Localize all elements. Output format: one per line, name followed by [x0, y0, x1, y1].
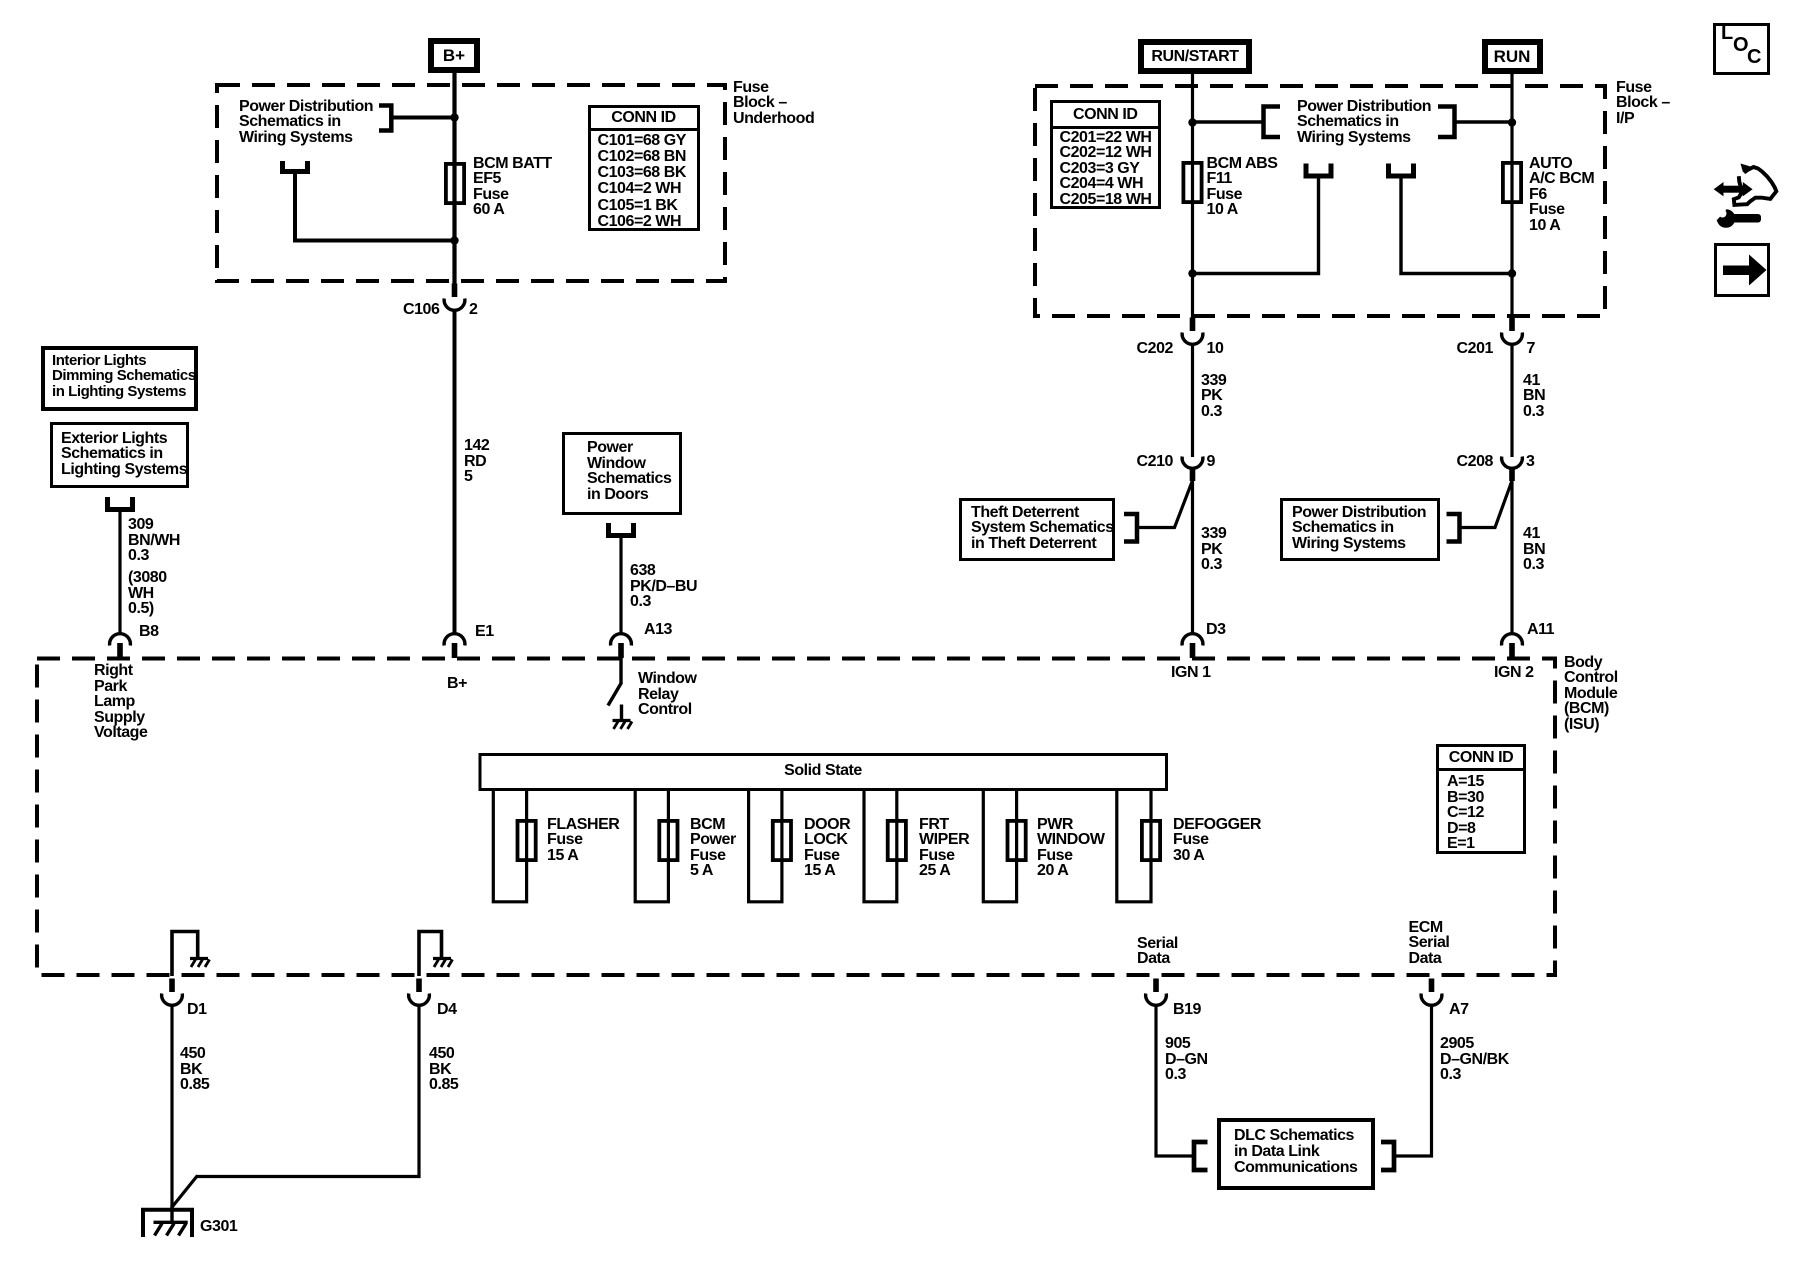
connector bracket power distribution schematics lower (underhood): [283, 161, 308, 172]
label power distribution schematics I/P: [1297, 99, 1431, 146]
connector D1: [162, 979, 183, 1006]
wire solid state leg FLASHER 15A: [493, 791, 526, 902]
connector A13: [611, 634, 632, 658]
wire solid state leg DOOR LOCK 15A: [749, 791, 782, 902]
connector E1: [444, 634, 465, 658]
wire label 450 BK left: [180, 1046, 209, 1093]
label right park lamp supply voltage: [94, 663, 147, 741]
label solid state: [480, 763, 1166, 779]
reference box power window: [562, 432, 682, 515]
label fuse BCM BATT: [473, 156, 552, 218]
wire label 905 D-GN: [1165, 1036, 1208, 1083]
connector A7: [1421, 979, 1442, 1006]
pin label C202: [1133, 341, 1173, 357]
pin label D4: [437, 1002, 457, 1018]
wire 41 BN upper: [1510, 343, 1513, 457]
label fuse BCM ABS F11: [1207, 156, 1278, 218]
wire label 339 PK upper: [1201, 373, 1226, 420]
icon letter L: [1721, 26, 1733, 42]
wire 638 PK/D-BU: [619, 534, 622, 635]
label IGN 2: [1494, 665, 1534, 681]
pin label C201: [1453, 341, 1493, 357]
wire RUN/START feed: [1191, 72, 1194, 318]
icon forward arrow: [1723, 255, 1767, 286]
wire label 339 PK lower: [1201, 526, 1226, 573]
pin label C208: [1453, 454, 1493, 470]
connector bracket power window: [609, 523, 634, 536]
reference box DLC: [1217, 1118, 1375, 1190]
callout bracket power distribution schematics I/P right: [1438, 107, 1455, 138]
callout bracket power distribution schematics (underhood): [379, 106, 391, 131]
fuse DOOR LOCK 15A: [773, 821, 791, 860]
pin number 10: [1207, 341, 1224, 357]
icon wrench: [1713, 205, 1761, 228]
icon letter C: [1747, 50, 1761, 66]
callout bracket power distribution schematics I/P left: [1264, 107, 1281, 138]
wire 309 BN/WH: [118, 508, 121, 635]
ground internal ground left: [190, 959, 210, 968]
ground hook right (internal): [419, 932, 442, 977]
reference box interior lights: [41, 346, 198, 411]
wire label 142 RD 5: [464, 438, 489, 485]
label fuse DEFOGGER: [1173, 817, 1261, 864]
icon arrow box: [1714, 243, 1770, 297]
junction F: [1508, 269, 1516, 277]
text exterior lights: [61, 431, 187, 478]
wire 339 PK lower: [1191, 480, 1194, 635]
table CONN ID BCM: [1436, 744, 1526, 854]
wire B+ feed: [452, 70, 456, 284]
pin label B8: [139, 624, 159, 640]
power symbol B+: [428, 38, 480, 73]
label fuse BCM: [690, 817, 736, 879]
fuse PWR WINDOW 20A: [1008, 821, 1026, 860]
wire to power distribution callout left: [1193, 120, 1264, 123]
wire solid state leg FRT WIPER 25A: [864, 791, 897, 902]
fuse BCM BATT EF5 60A: [446, 164, 464, 203]
text DLC schematics: [1234, 1128, 1358, 1177]
pin label C106: [403, 302, 439, 318]
wire label 41 BN lower: [1523, 526, 1545, 573]
label fuse block underhood: [733, 80, 814, 127]
pin label A13: [644, 622, 672, 638]
Fuse Block I/P dashed box: [1035, 86, 1605, 316]
connector bracket exterior lights: [108, 497, 133, 510]
wire 905 D-GN: [1156, 1004, 1194, 1157]
callout bracket power distribution wiring systems callout: [1447, 514, 1460, 542]
pin number 7: [1527, 341, 1535, 357]
label fuse FRT: [919, 817, 969, 879]
wire label 450 BK right: [429, 1046, 458, 1093]
pin number 9: [1207, 454, 1215, 470]
power symbol RUN/START: [1138, 39, 1252, 74]
connector B19: [1146, 979, 1167, 1006]
wire solid state leg DEFOGGER 30A: [1117, 791, 1151, 902]
wire power distribution callout right: [1455, 120, 1513, 123]
reference box exterior lights: [50, 422, 189, 488]
callout bracket DLC right: [1381, 1142, 1394, 1170]
power symbol RUN: [1482, 39, 1543, 74]
text power distribution wiring systems: [1292, 505, 1426, 552]
fuse FLASHER 15A: [518, 821, 536, 860]
table CONN ID I/P: [1050, 100, 1162, 209]
label fuse AUTO A/C BCM F6: [1529, 156, 1594, 234]
ground G301: [141, 1205, 194, 1237]
junction E: [1188, 269, 1196, 277]
pin label C210: [1133, 454, 1173, 470]
junction D: [1508, 118, 1516, 126]
label IGN 1: [1171, 665, 1211, 681]
reference box power distribution wiring systems: [1280, 498, 1440, 561]
label serial data: [1137, 936, 1178, 967]
connector bracket power distribution lower left: [1306, 164, 1331, 177]
wire solid state leg BCM Power 5A: [635, 791, 668, 902]
pin number 3: [1526, 454, 1534, 470]
switch window relay control: [608, 658, 622, 706]
wire label 41 BN upper: [1523, 373, 1545, 420]
connector C201: [1502, 318, 1523, 345]
pin label E1: [475, 624, 494, 640]
pin label D1: [187, 1002, 207, 1018]
Body Control Module dashed box: [37, 659, 1555, 976]
icon harness arrows: [1714, 164, 1777, 205]
label G301: [200, 1219, 237, 1235]
Fuse Block Underhood dashed box: [217, 85, 725, 281]
wire power distribution callout link: [1460, 480, 1513, 528]
pin number 2: [469, 302, 477, 318]
connector D3: [1182, 634, 1203, 658]
text power window schematics: [587, 440, 671, 502]
label B+ internal: [447, 676, 467, 692]
wire power distribution callout to B+ feed: [391, 116, 454, 120]
ground hook left (internal): [172, 932, 198, 977]
fuse AUTO A/C BCM F6 10A: [1503, 163, 1521, 202]
label power distribution schematics underhood: [239, 99, 373, 146]
wire 450 BK right: [197, 1004, 420, 1177]
connector bracket power distribution lower right: [1389, 164, 1414, 177]
label window relay control: [638, 671, 696, 718]
wire 41 BN lower: [1510, 480, 1513, 635]
wire label 2905 D-GN/BK: [1440, 1036, 1509, 1083]
text interior lights: [52, 353, 196, 400]
connector C208: [1502, 457, 1523, 482]
table CONN ID underhood: [588, 105, 700, 231]
connector C202: [1182, 318, 1203, 345]
label fuse block I/P: [1616, 80, 1670, 127]
wire 450 BK left: [170, 1004, 173, 1208]
fuse BCM Power 5A: [659, 821, 677, 860]
wire solid state leg PWR WINDOW 20A: [983, 791, 1016, 902]
fuse BCM ABS F11 10A: [1183, 163, 1201, 202]
pin label D3: [1206, 622, 1226, 638]
fuse DEFOGGER 30A: [1142, 821, 1160, 860]
label fuse DOOR: [804, 817, 850, 879]
ground internal ground right: [433, 959, 453, 968]
pin label A11: [1527, 622, 1554, 638]
reference box theft deterrent: [959, 498, 1115, 561]
wire label 309 BN/WH: [128, 517, 180, 564]
connector D4: [409, 979, 430, 1006]
junction A: [450, 113, 458, 121]
label fuse PWR: [1037, 817, 1105, 879]
connector C210: [1182, 457, 1203, 482]
callout bracket theft deterrent callout: [1124, 514, 1137, 542]
pin label A7: [1449, 1002, 1469, 1018]
Solid State bar: [480, 755, 1167, 790]
label fuse FLASHER: [547, 817, 619, 864]
connector B8: [110, 634, 131, 658]
fuse FRT WIPER 25A: [888, 821, 906, 860]
icon letter O: [1733, 38, 1748, 54]
text theft deterrent: [971, 505, 1114, 552]
pin label B19: [1173, 1002, 1201, 1018]
wire 142 RD 5: [453, 309, 457, 635]
callout bracket DLC left: [1194, 1142, 1208, 1170]
label ECM serial data: [1409, 920, 1450, 967]
connector A11: [1502, 634, 1523, 658]
label body control module: [1564, 655, 1618, 733]
wire 2905 D-GN/BK: [1394, 1004, 1432, 1157]
wire label 638 PK/D-BU: [630, 563, 697, 610]
wire window relay ground stub: [620, 705, 623, 721]
junction B: [450, 236, 458, 244]
ground window relay control ground: [613, 721, 633, 730]
connector C106: [444, 284, 465, 311]
wire power distribution lower branch: [295, 171, 455, 241]
wire lower branch right: [1401, 174, 1512, 274]
wire 339 PK upper: [1191, 343, 1194, 457]
icon LOC box: [1713, 23, 1770, 75]
wire ground diagonal: [173, 1176, 198, 1207]
wire label 3080 WH: [128, 570, 167, 617]
wire RUN feed: [1510, 72, 1513, 318]
wire lower branch left: [1193, 174, 1319, 274]
wire theft deterrent callout link: [1138, 480, 1193, 528]
junction C: [1188, 118, 1196, 126]
